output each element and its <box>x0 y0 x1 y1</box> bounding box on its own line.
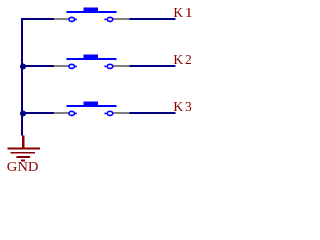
svg-text:K2: K2 <box>173 52 191 67</box>
svg-text:K3: K3 <box>173 99 192 114</box>
svg-text:GND: GND <box>7 160 39 175</box>
svg-text:K1: K1 <box>173 5 192 20</box>
